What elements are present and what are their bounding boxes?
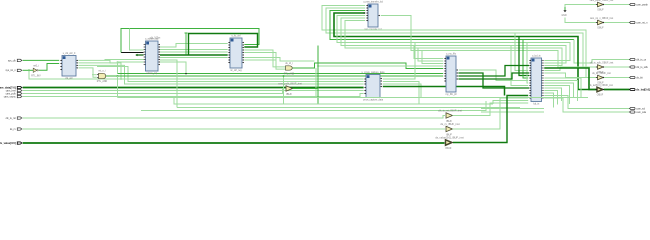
and gate ds_rd_i RTL_AND small xyxy=(284,62,295,76)
output port clk_ts_sclk xyxy=(630,66,649,69)
input port ds_rx xyxy=(10,128,22,131)
output port ds_led[5:0] bus xyxy=(630,87,650,91)
module u_clk_wiz (clk_wiz) xyxy=(60,53,78,80)
wire u2 right y52 to block3 xyxy=(160,51,228,53)
wire u3 right y60 out xyxy=(244,59,276,61)
bottom trunk y110.5 xyxy=(141,101,486,111)
riser to lcd pin x515 xyxy=(515,33,528,71)
wire ds_rx to IBUF2 xyxy=(23,128,445,130)
input port cam_href xyxy=(6,89,22,92)
dark bus stub left of u_sdram_top xyxy=(137,54,144,55)
wire inverter out to clk_wiz xyxy=(39,64,59,71)
junction u2 clk feed xyxy=(117,61,119,63)
wire riser x318 lower part xyxy=(317,89,319,105)
lcd out cam_sda loop xyxy=(544,98,629,112)
module u_lcd_ts (lcd driver) xyxy=(529,55,544,106)
wire obuf row4 to port xyxy=(604,66,630,68)
wire u3 right y52.5 riser2 xyxy=(244,53,285,70)
riser to lcd pin x519 dark xyxy=(519,37,529,76)
lcd out y80.5 xyxy=(544,81,577,102)
trunk E y42.5 x337 xyxy=(337,16,570,61)
bus pin on ram_transfer y13 (black) xyxy=(364,12,366,14)
svg-text:rst_n_i: rst_n_i xyxy=(99,70,106,73)
buffer ds_value_IBUF bus xyxy=(435,136,464,150)
svg-text:sys_clk: sys_clk xyxy=(8,59,17,62)
wire clk trunk y73.5 xyxy=(118,73,444,75)
module u_sdram_top xyxy=(144,38,161,76)
lcd dark out y68 to bold obuf xyxy=(544,68,596,90)
riser y104 to lcd xyxy=(493,101,528,105)
trunk A y30/x322 to obuf row5 xyxy=(322,6,597,78)
svg-text:my_fifo_pll: my_fifo_pll xyxy=(446,94,457,96)
trunk F y45.5 x341 xyxy=(341,18,566,63)
svg-text:cam_vsync: cam_vsync xyxy=(4,95,17,98)
bottom trunk y107.5 xyxy=(177,107,520,109)
wire rst_n trunk to fifo xyxy=(118,75,444,77)
wire u3 right y57.5 out xyxy=(244,58,314,62)
wire u2 right y62 to right xyxy=(160,62,186,73)
buffer ds_led_OBUF bus xyxy=(589,84,613,97)
wire obuf row5 to port xyxy=(604,77,630,79)
svg-text:u_clk_wiz_0: u_clk_wiz_0 xyxy=(63,53,76,55)
wire u2 left lower pins from clk riser xyxy=(118,61,144,63)
buffer clk_ts_rst_IBUF xyxy=(438,109,462,123)
inverter rtl_inv rst0_i xyxy=(31,65,41,78)
svg-text:u_lcd_ts: u_lcd_ts xyxy=(532,55,541,58)
svg-text:ds_value[3:0]: ds_value[3:0] xyxy=(0,141,16,145)
svg-text:clk_ts_sclk: clk_ts_sclk xyxy=(636,66,648,69)
wire cmos out y86.5 dark to riser xyxy=(383,87,505,96)
riser to fifo pin2 xyxy=(418,48,443,61)
junction clk out2 on rst row xyxy=(120,78,122,80)
wire u2 right y57.5 to block3 xyxy=(160,57,228,59)
wire u2 pin y59.5 xyxy=(105,59,144,61)
trunk B y33/x326 to obuf row4 xyxy=(326,8,597,67)
wire cam_vsync to cmos_capture xyxy=(23,94,364,97)
buffer ds_bit_OBUF xyxy=(592,72,611,85)
wire gnd to obuf cam_rst_n xyxy=(565,18,597,23)
svg-text:GND: GND xyxy=(562,15,567,17)
output port cam_scl xyxy=(630,107,646,110)
input port sys_clk xyxy=(8,59,22,62)
IBUF2 out up xyxy=(453,98,529,129)
svg-text:ds_rx_IBUF_inst: ds_rx_IBUF_inst xyxy=(440,122,459,126)
svg-text:clk_ts_rst: clk_ts_rst xyxy=(6,117,16,120)
svg-text:cam_pclk_IBUF_inst: cam_pclk_IBUF_inst xyxy=(278,82,302,86)
wire obuf1 to port xyxy=(604,4,630,6)
junction rst_n branch x283.5 xyxy=(283,75,285,77)
svg-text:clk_ts_sclk_OBUF_inst: clk_ts_sclk_OBUF_inst xyxy=(590,62,614,65)
wire cmos out y84 to y97.5 xyxy=(383,84,421,98)
svg-text:cam_rst_n: cam_rst_n xyxy=(636,21,648,24)
IBUF3 out bus up xyxy=(453,96,528,143)
ground symbol GND xyxy=(562,7,567,17)
wire ds_value bus to IBUF3 xyxy=(23,142,445,144)
riser to lcd pin x511 xyxy=(511,46,528,86)
black bus stub into u_sdram_top xyxy=(121,52,144,54)
output port cam_pwdn xyxy=(630,3,649,6)
fifo out y79 dark xyxy=(458,73,529,79)
buffer cam_rst_n_OBUF xyxy=(590,17,614,30)
svg-text:cmos_capture_data: cmos_capture_data xyxy=(363,99,384,102)
output port clk_ts_cs xyxy=(630,58,647,61)
svg-text:RTL_AND: RTL_AND xyxy=(284,73,295,76)
svg-text:ds_rd_i: ds_rd_i xyxy=(285,62,293,65)
junction pclk riser xyxy=(317,65,319,67)
svg-text:RTL_AND: RTL_AND xyxy=(97,80,108,83)
wire clk_wiz out row y66.5 to capture xyxy=(97,67,364,82)
wire u2 right y55 dark bus to block3 xyxy=(160,54,228,56)
input port sys_rst_n xyxy=(5,69,21,72)
output port ds_bit xyxy=(630,76,644,79)
trunk C y39.5 x330 medium xyxy=(330,11,574,40)
and gate rst_n_i RTL_AND xyxy=(97,70,108,84)
svg-text:u_ram_transfer_lcd: u_ram_transfer_lcd xyxy=(363,1,384,4)
svg-text:sdram_top: sdram_top xyxy=(146,72,158,75)
svg-text:cam_pwdn_OBUF_inst: cam_pwdn_OBUF_inst xyxy=(590,0,614,2)
lcd out y78 right xyxy=(544,78,581,98)
svg-text:cam_pwdn: cam_pwdn xyxy=(636,3,648,6)
input port cam_pclk xyxy=(6,92,22,95)
wire cam_data bus to cmos_capture xyxy=(23,87,364,89)
wire sys_clk to clk_wiz xyxy=(23,59,60,61)
fifo out y76 dark xyxy=(458,66,529,77)
svg-text:u_my_fifo: u_my_fifo xyxy=(446,54,457,56)
trunk C contd light to clk_ts_cs port xyxy=(574,40,630,64)
svg-text:RTL_INV: RTL_INV xyxy=(31,76,41,78)
svg-text:sys_rst_n: sys_rst_n xyxy=(5,69,16,72)
wire cam_href to cmos_capture xyxy=(23,90,364,92)
lcd out y73 stair2 xyxy=(544,73,586,78)
lcd left bottom scl feed xyxy=(481,108,544,110)
wire pclk ibuf out up to trunk xyxy=(293,46,319,89)
trunk D y36.5 x334 dark bus xyxy=(334,13,597,90)
bottom branch y97.5 to y104 xyxy=(174,98,493,105)
wire cmos out y79 up to trunk xyxy=(383,43,415,80)
lcd out y93 xyxy=(544,93,553,108)
lcd out y70.5 stair xyxy=(544,67,583,71)
svg-text:cam_sda: cam_sda xyxy=(636,111,646,114)
module u_cmos_capture_data xyxy=(362,71,385,102)
input port cam_vsync xyxy=(4,95,22,98)
wire clk_wiz out2 to rst row xyxy=(78,63,121,79)
wire dark loop x188.5 xyxy=(189,34,258,56)
wire clk_wiz out1 to clk riser xyxy=(78,60,117,73)
wire branch down from and2 out xyxy=(315,68,317,98)
wire u2 right y60 riser to bottom trunk xyxy=(160,60,177,108)
svg-text:u_cmos_capture_data: u_cmos_capture_data xyxy=(362,71,385,74)
svg-text:rst0_i: rst0_i xyxy=(33,65,39,68)
svg-text:clk_100m: clk_100m xyxy=(150,37,160,40)
wire u2 right y49.5 to block3 xyxy=(160,49,228,51)
wire gnd to obuf cam_pwdn xyxy=(565,5,597,8)
riser rst_n to bottom trunk xyxy=(117,76,119,98)
wire and out rst_n xyxy=(106,75,118,77)
svg-text:u_iic_ctrl: u_iic_ctrl xyxy=(231,35,241,38)
wire riser x129.5 from y28.5 to pin xyxy=(130,29,144,51)
wire branch down x283.5 to bottom trunk xyxy=(283,76,285,104)
svg-text:OBUF: OBUF xyxy=(597,28,604,30)
module u_my_fifo (fifo/pll) xyxy=(444,54,458,97)
fifo out y70 loop xyxy=(459,70,528,81)
wire obuf2 to port xyxy=(604,22,630,24)
svg-text:cam_rst_n_OBUF_inst: cam_rst_n_OBUF_inst xyxy=(590,17,614,20)
wire pclk riser branch to fifo xyxy=(318,65,443,67)
svg-text:ds_led[5:0]: ds_led[5:0] xyxy=(636,87,650,91)
svg-text:clk_wiz: clk_wiz xyxy=(65,78,73,80)
fifo out y73 dark down xyxy=(458,73,529,88)
lcd out y83 xyxy=(544,83,573,98)
wire and2 out right to fifo xyxy=(293,63,444,69)
wire u2 right y44.5 step to block3 xyxy=(160,44,228,48)
lcd out y88 xyxy=(544,88,561,101)
wire cmos out y81.5 down to y104 xyxy=(383,82,419,105)
svg-text:ds_led[5:0]_OBUF_inst: ds_led[5:0]_OBUF_inst xyxy=(589,84,613,87)
lcd out y90.5 xyxy=(544,91,557,105)
module u_clk_cmos (cmos update reg) xyxy=(228,35,244,73)
dangling arrow at x186 xyxy=(185,73,187,75)
riser to fifo pin3 xyxy=(422,51,443,64)
svg-text:IBUF: IBUF xyxy=(286,92,292,96)
lcd out y85.5 xyxy=(544,86,569,105)
svg-text:clk_ts_cs: clk_ts_cs xyxy=(636,58,647,61)
svg-text:IBUF: IBUF xyxy=(446,146,452,150)
wire u3 right y50 to and gate riser xyxy=(244,50,285,67)
module u_ram_transfer_lcd xyxy=(363,1,384,32)
net stub with T cap at x186 xyxy=(185,33,188,55)
svg-text:ds_rx: ds_rx xyxy=(10,128,17,131)
wire clk_wiz out3 to cmos pclk2 xyxy=(78,65,363,84)
buffer ds_rx_IBUF xyxy=(440,122,459,136)
junction rst_n x117 xyxy=(117,75,119,77)
svg-text:ds_value[3:0]_IBUF_inst: ds_value[3:0]_IBUF_inst xyxy=(435,136,464,140)
input port cam_data[7:0] bus xyxy=(0,85,22,89)
output port cam_rst_n xyxy=(630,21,649,24)
riser to lcd pin x523 xyxy=(523,40,528,79)
wire loop top y28.5 from x121 to block3 right xyxy=(121,29,259,53)
input port ds_value[3:0] bus xyxy=(0,141,22,145)
IBUF1 out up to lcd xyxy=(453,103,529,116)
buffer cam_pclk_IBUF xyxy=(278,82,302,96)
svg-text:ds_bit: ds_bit xyxy=(636,76,643,79)
wire clk_wiz locked to and gate xyxy=(78,68,96,77)
ram_transfer right out to y50.5 xyxy=(381,16,558,69)
wire cam_pclk to IBUF xyxy=(23,89,285,94)
svg-text:lcd_ts: lcd_ts xyxy=(533,103,540,106)
svg-text:iic_ctrl_reg: iic_ctrl_reg xyxy=(230,69,242,72)
riser to fifo pin1 xyxy=(414,46,443,59)
lcd out cam_scl loop xyxy=(544,96,629,109)
wire clk_ts_rst to IBUF1 xyxy=(23,116,445,119)
bottom trunk y97.5 horiz xyxy=(118,97,589,99)
buffer cam_pwdn_OBUF xyxy=(590,0,614,12)
lcd bottom y112 feed xyxy=(481,111,544,113)
wire obuf row6 bus to port xyxy=(604,89,630,91)
svg-text:OBUF: OBUF xyxy=(597,10,604,12)
svg-text:clk_ts_rst_IBUF_inst: clk_ts_rst_IBUF_inst xyxy=(438,109,462,113)
svg-text:ds_bit_OBUF_inst: ds_bit_OBUF_inst xyxy=(592,72,611,75)
wire rst branch to cmos_capture rst pin xyxy=(29,70,364,79)
input port clk_ts_rst xyxy=(6,117,22,120)
output port cam_sda xyxy=(630,111,647,114)
wire sys_rst_n to inverter xyxy=(23,69,33,71)
junction sys_rst_n xyxy=(28,70,30,72)
wire and gate input a xyxy=(92,74,97,76)
riser to lcd pin x527 xyxy=(527,43,528,84)
svg-text:OBUF: OBUF xyxy=(597,95,604,97)
trunk G y48 x345 xyxy=(345,21,562,66)
buffer clk_ts_sclk_OBUF xyxy=(590,62,614,75)
